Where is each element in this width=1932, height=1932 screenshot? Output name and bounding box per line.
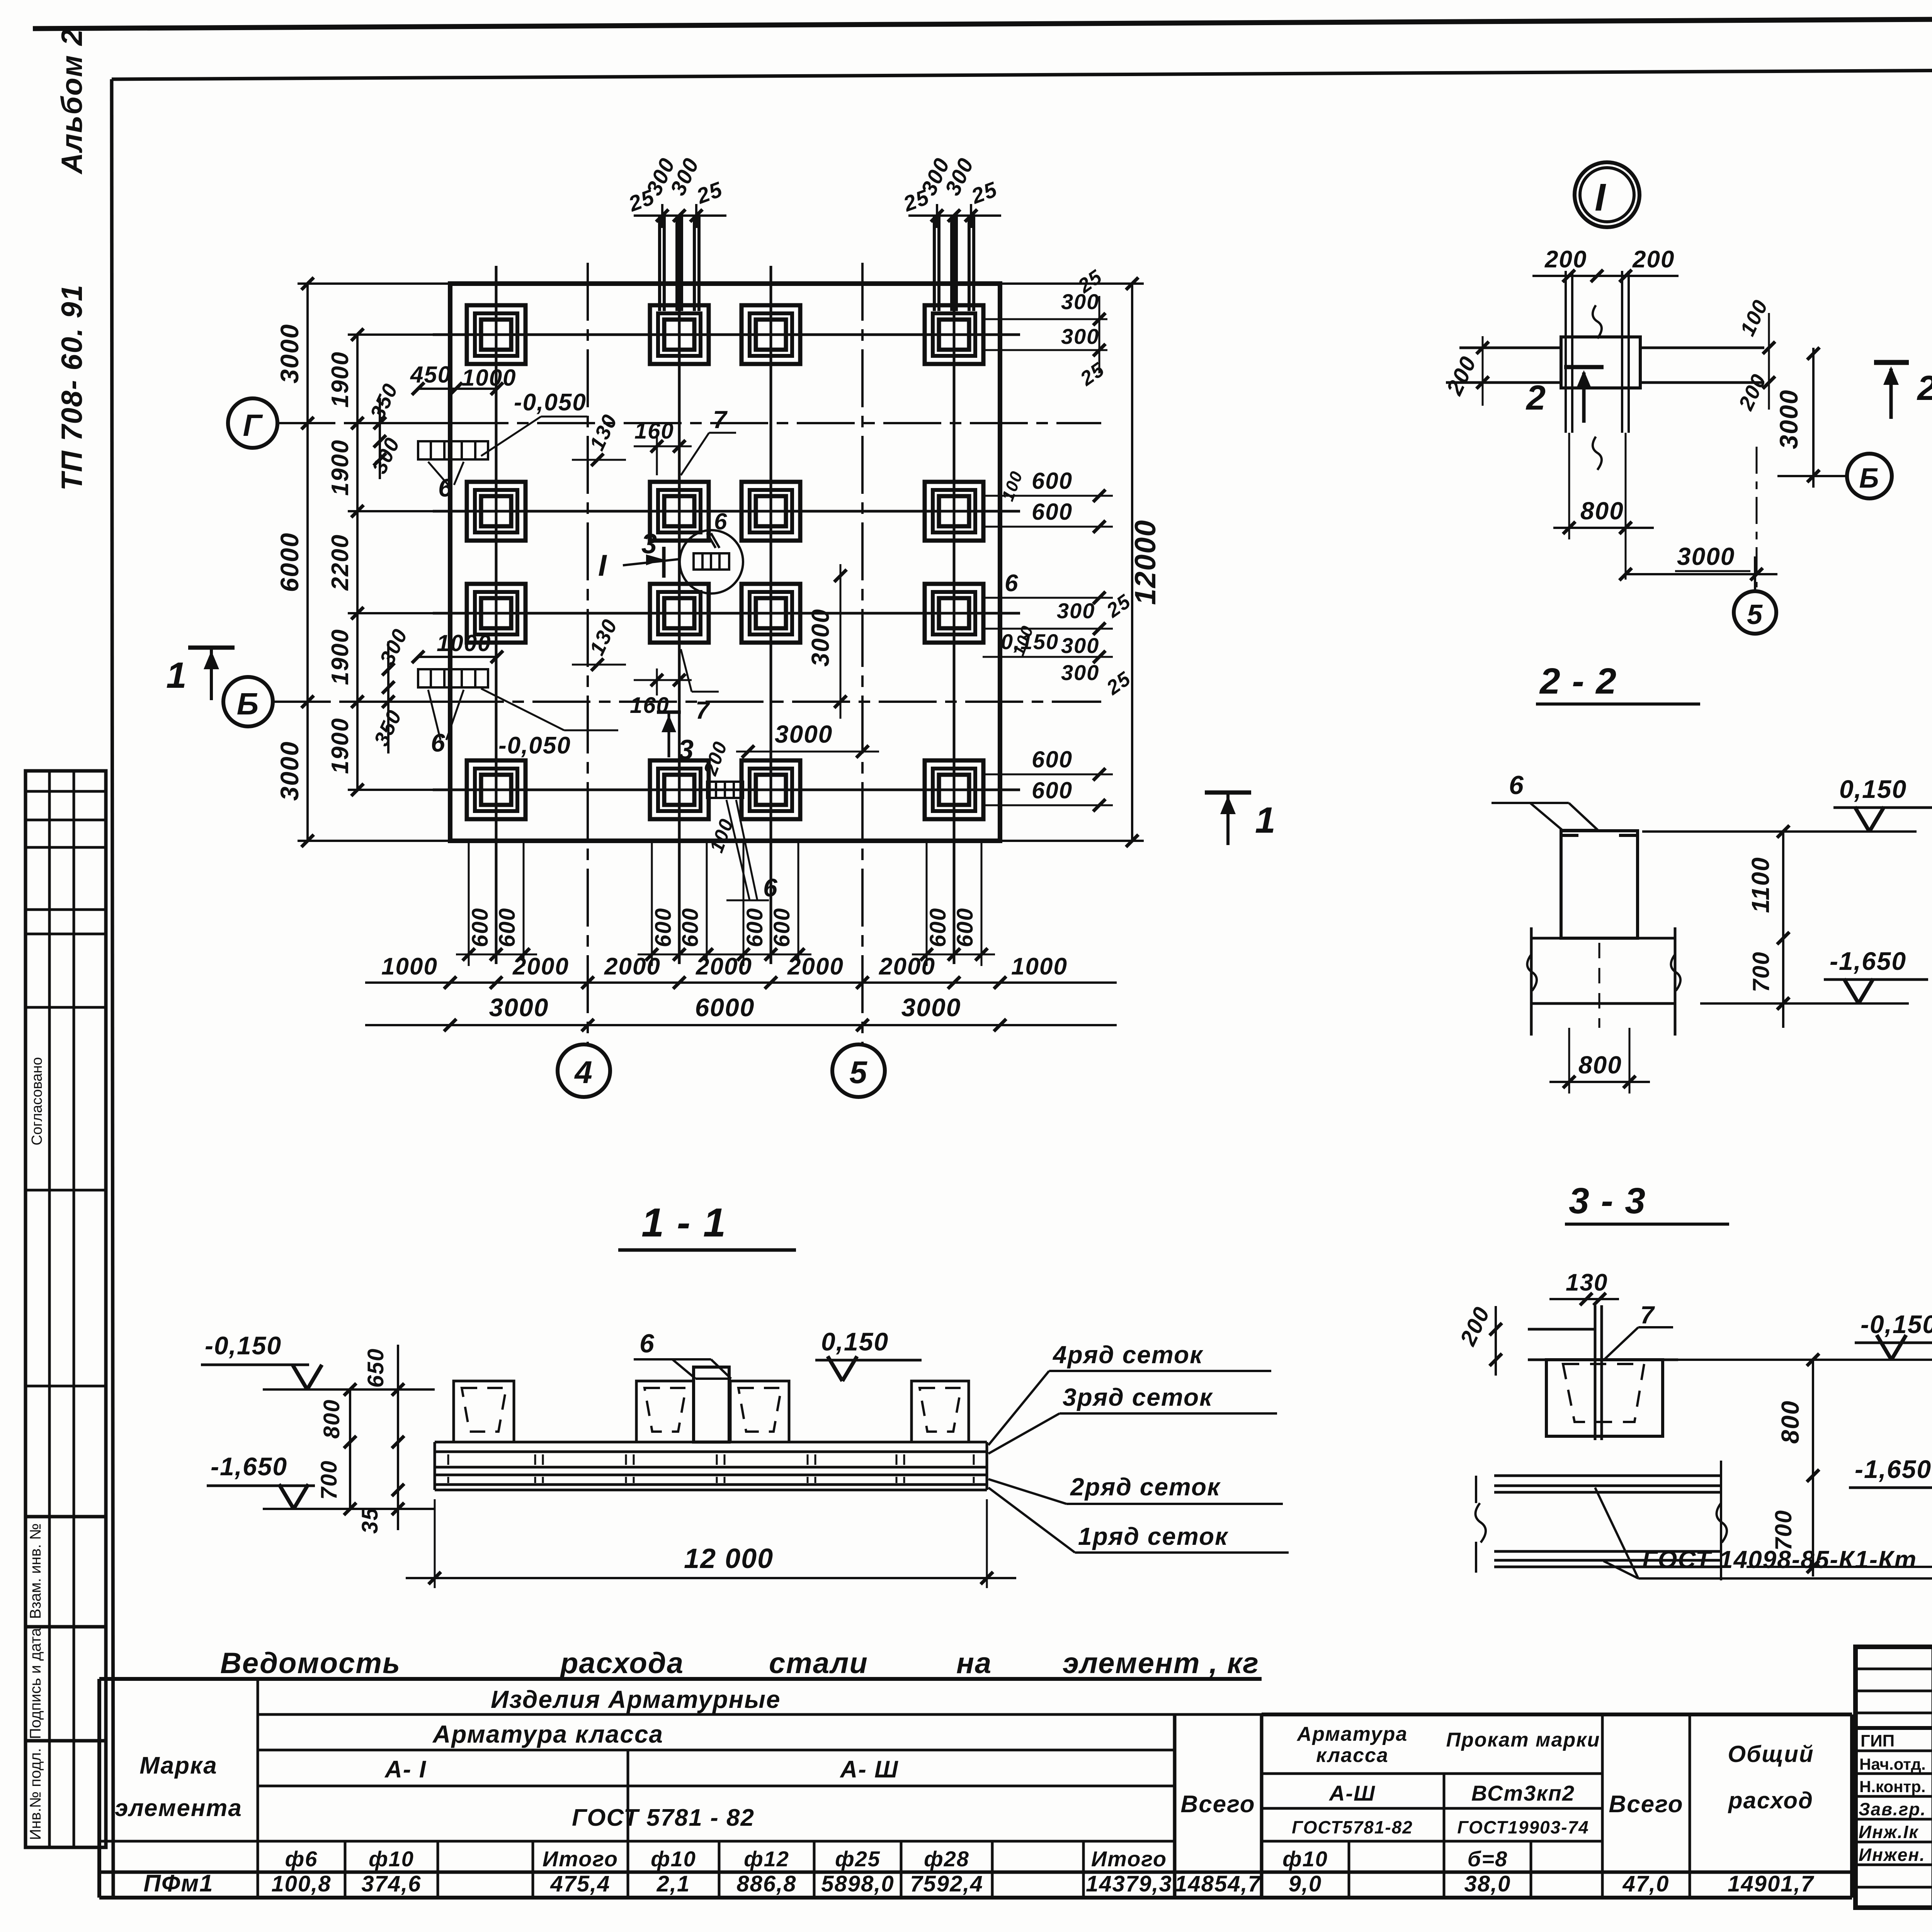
rotated album header xyxy=(56,29,88,491)
svg-text:200: 200 xyxy=(1442,352,1481,399)
svg-text:7592,4: 7592,4 xyxy=(910,1871,983,1896)
svg-text:800: 800 xyxy=(1776,1400,1804,1444)
svg-text:14379,3: 14379,3 xyxy=(1086,1871,1172,1896)
left dim 200 xyxy=(1482,336,1484,406)
700 dim xyxy=(1812,1490,1814,1577)
svg-text:ВСт3кп2: ВСт3кп2 xyxy=(1471,1781,1575,1805)
right dims 100 / 200 xyxy=(1768,313,1770,410)
svg-text:1100: 1100 xyxy=(1747,857,1774,913)
svg-text:2000: 2000 xyxy=(604,953,661,980)
column pad c4r4 xyxy=(925,760,983,819)
svg-text:Инв.№ подл.: Инв.№ подл. xyxy=(27,1748,44,1840)
200 dim left xyxy=(1495,1306,1497,1376)
svg-text:Г: Г xyxy=(243,408,263,442)
main dim line 1000/2000... xyxy=(365,981,1117,984)
pad edge extension lines + 600/600 labels xyxy=(456,841,995,966)
anchor bolts in detail xyxy=(1566,271,1629,433)
svg-text:100,8: 100,8 xyxy=(271,1871,331,1896)
svg-text:600: 600 xyxy=(925,908,951,947)
svg-text:1000: 1000 xyxy=(462,365,516,391)
svg-text:700: 700 xyxy=(1748,951,1774,992)
svg-text:130: 130 xyxy=(585,411,622,454)
svg-text:1 - 1: 1 - 1 xyxy=(641,1200,726,1245)
axis circle G xyxy=(228,398,277,448)
columns xyxy=(257,1679,259,1898)
signature area verticals xyxy=(1932,1647,1932,1908)
1100 dim xyxy=(1782,832,1784,938)
svg-text:ПФм1: ПФм1 xyxy=(143,1870,213,1897)
svg-text:200: 200 xyxy=(1632,246,1675,273)
svg-text:600: 600 xyxy=(1032,499,1073,525)
section 2 marker left xyxy=(1564,365,1604,369)
svg-text:ф10: ф10 xyxy=(651,1847,696,1871)
svg-text:Всего: Всего xyxy=(1609,1791,1683,1818)
svg-text:6000: 6000 xyxy=(275,532,304,592)
svg-text:Ведомость: Ведомость xyxy=(220,1647,401,1680)
svg-text:ГОСТ 5781 - 82: ГОСТ 5781 - 82 xyxy=(572,1804,755,1831)
svg-text:Изделия Арматурные: Изделия Арматурные xyxy=(491,1685,781,1713)
svg-text:1000: 1000 xyxy=(437,630,491,656)
svg-text:600: 600 xyxy=(678,908,703,947)
bolt dim line col4 xyxy=(908,204,1001,228)
svg-text:600: 600 xyxy=(1032,747,1073,772)
svg-text:800: 800 xyxy=(319,1399,344,1439)
svg-text:ф28: ф28 xyxy=(924,1847,969,1871)
axis 5 dashed xyxy=(1756,447,1758,587)
anchor bolts above plan col4 xyxy=(934,216,974,311)
svg-text:1900: 1900 xyxy=(327,351,354,408)
section 2 marker right xyxy=(1874,360,1909,365)
svg-text:4: 4 xyxy=(574,1055,593,1090)
axes G and B dash-dot xyxy=(273,423,1101,702)
svg-text:ф10: ф10 xyxy=(369,1847,414,1871)
second dim line 3000/6000/3000 xyxy=(365,1024,1117,1026)
svg-text:Итого: Итого xyxy=(543,1847,618,1871)
rows left xyxy=(258,1713,1262,1716)
svg-text:300: 300 xyxy=(367,434,404,477)
plan outline xyxy=(450,284,1000,841)
column xyxy=(1561,831,1638,938)
svg-text:450: 450 xyxy=(410,362,451,388)
outer xyxy=(99,1677,1262,1681)
marker 3 upper xyxy=(662,547,666,578)
inner frame left xyxy=(112,79,113,1898)
column pad c3r1 xyxy=(742,305,800,364)
svg-text:1: 1 xyxy=(1255,800,1276,841)
svg-text:14854,7: 14854,7 xyxy=(1175,1871,1261,1896)
svg-text:38,0: 38,0 xyxy=(1464,1871,1511,1896)
svg-text:1900: 1900 xyxy=(327,439,354,496)
signature rows xyxy=(1855,1668,1932,1670)
svg-text:6000: 6000 xyxy=(695,993,755,1022)
svg-text:300: 300 xyxy=(1061,324,1099,349)
anchor bolts above plan col2 xyxy=(660,216,699,311)
svg-text:1000: 1000 xyxy=(381,953,438,980)
svg-text:130: 130 xyxy=(1566,1269,1608,1296)
svg-text:0,150: 0,150 xyxy=(821,1327,889,1356)
top sheet line xyxy=(33,15,1932,29)
column pad c2r3 xyxy=(650,584,709,643)
svg-text:600: 600 xyxy=(1032,777,1073,803)
base slab xyxy=(1531,927,1675,1036)
svg-text:ГОСТ5781-82: ГОСТ5781-82 xyxy=(1292,1817,1413,1837)
svg-text:100: 100 xyxy=(706,816,738,855)
svg-text:300: 300 xyxy=(1061,633,1099,658)
svg-text:600: 600 xyxy=(495,908,520,947)
svg-text:3000: 3000 xyxy=(1774,389,1803,449)
3000 bottom dim xyxy=(1626,573,1777,575)
svg-text:300: 300 xyxy=(1061,289,1099,314)
column pad c4r1 xyxy=(925,305,983,364)
svg-text:12 000: 12 000 xyxy=(684,1543,774,1574)
svg-text:ф12: ф12 xyxy=(744,1847,789,1871)
svg-text:3: 3 xyxy=(641,529,658,560)
svg-text:-0,150: -0,150 xyxy=(1861,1310,1932,1338)
svg-text:Нач.отд.: Нач.отд. xyxy=(1859,1755,1926,1773)
svg-text:-1,650: -1,650 xyxy=(1855,1455,1932,1483)
svg-text:-1,650: -1,650 xyxy=(1830,947,1906,975)
column pad c3r2 xyxy=(742,482,800,541)
axes 4 and 5 xyxy=(588,263,862,1044)
svg-text:расход: расход xyxy=(1728,1787,1813,1813)
svg-text:650: 650 xyxy=(363,1348,388,1388)
axis 5 continuation + circle 5 xyxy=(1754,556,1756,590)
svg-text:элемент , кг: элемент , кг xyxy=(1063,1647,1259,1680)
800 dim xyxy=(1553,527,1654,529)
inner frame top xyxy=(112,67,1932,79)
svg-text:-1,650: -1,650 xyxy=(211,1452,287,1481)
circle B xyxy=(1847,454,1892,498)
svg-text:5898,0: 5898,0 xyxy=(821,1871,894,1896)
svg-text:Б: Б xyxy=(1859,463,1880,494)
svg-text:3: 3 xyxy=(678,735,694,765)
svg-text:А- Ш: А- Ш xyxy=(839,1756,898,1783)
section 1 marker right xyxy=(1205,793,1251,845)
axis circle B xyxy=(223,677,273,726)
svg-text:2000: 2000 xyxy=(879,953,935,980)
svg-text:600: 600 xyxy=(468,908,493,947)
svg-text:ТП 708- 60. 91: ТП 708- 60. 91 xyxy=(56,284,88,491)
700 dim xyxy=(1777,997,1789,1010)
130 dim xyxy=(1549,1298,1619,1300)
column pad c3r4 xyxy=(742,760,800,819)
svg-text:6: 6 xyxy=(639,1329,655,1358)
svg-text:расхода: расхода xyxy=(560,1647,684,1680)
svg-text:3000: 3000 xyxy=(775,720,833,748)
svg-text:600: 600 xyxy=(742,908,767,947)
svg-text:800: 800 xyxy=(1580,497,1624,525)
marker 3 lower xyxy=(657,711,681,714)
ledge at axis G xyxy=(380,389,497,479)
svg-text:Взам. инв. №: Взам. инв. № xyxy=(27,1523,44,1619)
svg-text:374,6: 374,6 xyxy=(361,1871,421,1896)
svg-text:700: 700 xyxy=(316,1460,342,1500)
svg-text:А-Ш: А-Ш xyxy=(1328,1781,1376,1805)
svg-text:Инж.Iк: Инж.Iк xyxy=(1859,1822,1919,1842)
800 dim xyxy=(1812,1360,1814,1490)
svg-text:2ряд сеток: 2ряд сеток xyxy=(1070,1473,1221,1501)
column pad c1r3 xyxy=(467,584,526,643)
svg-text:200: 200 xyxy=(699,738,731,779)
axis circle 4 xyxy=(558,1044,610,1097)
ledge at axis B xyxy=(388,641,497,753)
svg-text:5: 5 xyxy=(849,1055,868,1090)
svg-text:I: I xyxy=(1595,176,1606,219)
svg-text:-0,050: -0,050 xyxy=(498,732,571,759)
svg-text:350: 350 xyxy=(366,380,402,423)
svg-text:6: 6 xyxy=(1005,570,1019,597)
svg-text:600: 600 xyxy=(1032,468,1073,494)
section 1 marker left xyxy=(188,648,235,700)
row1 right cluster xyxy=(983,296,1107,373)
column pad c1r4 xyxy=(467,760,526,819)
svg-text:12000: 12000 xyxy=(1129,519,1162,605)
svg-text:600: 600 xyxy=(651,908,676,947)
svg-text:600: 600 xyxy=(952,908,978,947)
column pad c3r3 xyxy=(742,584,800,643)
svg-text:200: 200 xyxy=(1455,1303,1495,1350)
slab band xyxy=(1446,337,1764,388)
callout 130/160/7 at pad c2 r3 xyxy=(572,649,719,696)
svg-text:Подпись и дата: Подпись и дата xyxy=(27,1628,44,1739)
svg-text:6: 6 xyxy=(763,873,778,902)
svg-text:2: 2 xyxy=(1526,379,1546,417)
svg-text:Инжен.: Инжен. xyxy=(1859,1845,1925,1865)
svg-text:6: 6 xyxy=(1509,770,1524,800)
svg-text:-0,150: -0,150 xyxy=(205,1331,282,1360)
svg-text:300: 300 xyxy=(375,625,412,668)
svg-text:886,8: 886,8 xyxy=(736,1871,796,1896)
svg-text:Б: Б xyxy=(237,687,260,721)
bolt vertical xyxy=(1595,1305,1602,1440)
svg-text:100: 100 xyxy=(1736,296,1772,339)
svg-text:130: 130 xyxy=(585,616,622,659)
svg-text:100: 100 xyxy=(998,468,1026,503)
svg-text:35: 35 xyxy=(357,1507,383,1534)
axis circle 5 xyxy=(832,1044,885,1097)
svg-text:25: 25 xyxy=(1076,358,1109,391)
svg-text:200: 200 xyxy=(1734,370,1771,414)
3000 horizontal dim xyxy=(736,751,879,753)
svg-text:А- I: А- I xyxy=(384,1756,427,1783)
row2 right cluster xyxy=(983,496,1113,527)
mesh cells in band xyxy=(448,1454,974,1483)
svg-text:Арматура класса: Арматура класса xyxy=(432,1720,663,1748)
pedestals xyxy=(454,1367,969,1442)
svg-text:3000: 3000 xyxy=(806,609,834,667)
svg-text:Марка: Марка xyxy=(139,1752,217,1779)
column pad c1r1 xyxy=(467,305,526,364)
svg-text:1900: 1900 xyxy=(327,718,354,774)
svg-text:2: 2 xyxy=(1917,369,1932,408)
svg-text:2 - 2: 2 - 2 xyxy=(1539,661,1617,702)
svg-text:1ряд сеток: 1ряд сеток xyxy=(1078,1522,1229,1550)
pad row centerlines xyxy=(433,335,1020,790)
slab xyxy=(435,1442,987,1490)
svg-text:Альбом 2: Альбом 2 xyxy=(56,29,88,175)
svg-text:2000: 2000 xyxy=(696,953,752,980)
svg-text:9,0: 9,0 xyxy=(1289,1871,1322,1896)
bottom middle ledge between pads xyxy=(707,782,743,798)
svg-text:1900: 1900 xyxy=(327,629,354,685)
left vertical dims xyxy=(397,1345,399,1530)
svg-text:300: 300 xyxy=(1057,599,1095,623)
svg-text:1000: 1000 xyxy=(1011,953,1068,980)
double circle with I xyxy=(1575,162,1639,227)
svg-text:1: 1 xyxy=(166,655,187,696)
column pad c4r2 xyxy=(925,482,983,541)
svg-text:ф25: ф25 xyxy=(835,1847,881,1871)
svg-text:класса: класса xyxy=(1316,1744,1389,1767)
svg-text:-0,050: -0,050 xyxy=(514,389,587,416)
svg-text:3000: 3000 xyxy=(1677,543,1735,570)
svg-text:Зав.гр.: Зав.гр. xyxy=(1859,1799,1926,1819)
3000 vertical dim xyxy=(840,564,842,719)
callout 160/7/130 at pad c2 r2 xyxy=(572,433,736,475)
break squiggles xyxy=(1593,305,1602,338)
row4 right cluster xyxy=(983,774,1113,805)
svg-text:350: 350 xyxy=(369,706,406,750)
svg-text:Арматура: Арматура xyxy=(1296,1723,1408,1745)
svg-text:на: на xyxy=(956,1647,992,1680)
svg-text:3000: 3000 xyxy=(489,993,549,1022)
svg-text:3000: 3000 xyxy=(275,741,304,801)
svg-text:Всего: Всего xyxy=(1180,1791,1255,1818)
800 dim bottom xyxy=(1568,1028,1570,1094)
top dim 200/200 xyxy=(1532,275,1679,277)
svg-text:ГОСТ 14098-85-К1-Кт: ГОСТ 14098-85-К1-Кт xyxy=(1642,1546,1917,1573)
svg-text:3 - 3: 3 - 3 xyxy=(1569,1180,1646,1221)
svg-text:160: 160 xyxy=(634,418,674,444)
svg-text:ГОСТ19903-74: ГОСТ19903-74 xyxy=(1457,1817,1589,1837)
svg-text:25: 25 xyxy=(693,177,726,208)
column pad c2r2 xyxy=(650,482,709,541)
svg-text:5: 5 xyxy=(1747,599,1763,630)
svg-text:160: 160 xyxy=(630,693,670,718)
column pad c2r4 xyxy=(650,760,709,819)
svg-text:Прокат марки: Прокат марки xyxy=(1446,1729,1600,1751)
slab with mesh bands xyxy=(1494,1476,1721,1567)
svg-text:700: 700 xyxy=(1770,1510,1796,1551)
svg-text:Н.контр.: Н.контр. xyxy=(1859,1777,1925,1796)
svg-text:3ряд сеток: 3ряд сеток xyxy=(1063,1383,1213,1411)
svg-text:Общий: Общий xyxy=(1728,1741,1814,1767)
svg-text:ГИП: ГИП xyxy=(1861,1731,1895,1750)
svg-text:800: 800 xyxy=(1578,1051,1622,1079)
svg-text:600: 600 xyxy=(769,908,794,947)
svg-text:7: 7 xyxy=(1640,1301,1655,1329)
column pad c4r3 xyxy=(925,584,983,643)
svg-text:47,0: 47,0 xyxy=(1622,1871,1670,1896)
column pad c1r2 xyxy=(467,482,526,541)
svg-text:ф6: ф6 xyxy=(285,1847,318,1871)
horizontal top line + pedestal xyxy=(1528,1329,1678,1436)
svg-text:25: 25 xyxy=(968,177,1001,208)
svg-text:200: 200 xyxy=(1544,246,1587,273)
detail circle I xyxy=(680,530,743,594)
svg-text:6: 6 xyxy=(438,473,453,502)
row3 right cluster xyxy=(983,598,1113,657)
svg-text:2200: 2200 xyxy=(327,534,354,591)
svg-text:Итого: Итого xyxy=(1091,1847,1167,1871)
3000 vertical dim to axis B xyxy=(1812,348,1815,488)
svg-text:3000: 3000 xyxy=(275,324,304,384)
svg-text:300: 300 xyxy=(1061,660,1099,685)
svg-text:I: I xyxy=(598,548,607,582)
column pad c2r1 xyxy=(650,305,709,364)
svg-text:14901,7: 14901,7 xyxy=(1728,1871,1814,1896)
12000 dim xyxy=(434,1499,436,1588)
svg-text:ф10: ф10 xyxy=(1282,1847,1328,1871)
pad column centerlines xyxy=(496,216,954,964)
svg-text:475,4: 475,4 xyxy=(550,1871,610,1896)
svg-text:Согласовано: Согласовано xyxy=(29,1057,45,1145)
svg-text:25: 25 xyxy=(1102,667,1135,700)
svg-text:б=8: б=8 xyxy=(1468,1847,1508,1871)
svg-text:2000: 2000 xyxy=(512,953,569,980)
bolt dim line col2 xyxy=(634,204,726,228)
svg-text:2000: 2000 xyxy=(787,953,844,980)
svg-text:7: 7 xyxy=(713,406,728,434)
svg-text:4ряд сеток: 4ряд сеток xyxy=(1052,1341,1204,1369)
svg-text:стали: стали xyxy=(769,1647,868,1680)
svg-text:3000: 3000 xyxy=(901,993,961,1022)
svg-text:6: 6 xyxy=(714,509,728,534)
rows right xyxy=(1262,1772,1602,1775)
svg-text:2,1: 2,1 xyxy=(656,1871,690,1896)
svg-text:7: 7 xyxy=(696,696,711,724)
svg-text:0,150: 0,150 xyxy=(1839,775,1907,803)
svg-text:элемента: элемента xyxy=(115,1795,242,1821)
